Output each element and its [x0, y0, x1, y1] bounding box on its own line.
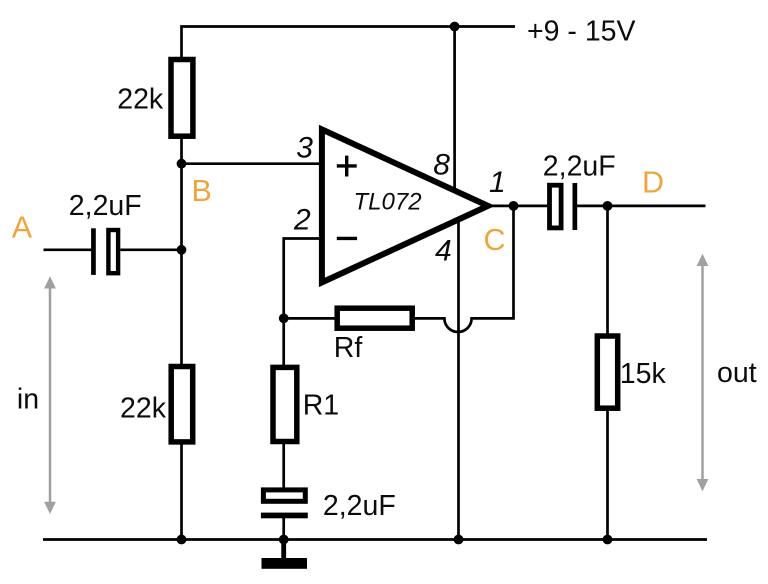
svg-text:15k: 15k [620, 358, 667, 390]
svg-text:TL072: TL072 [354, 189, 422, 216]
resistor R1 [273, 367, 297, 441]
svg-text:8: 8 [433, 149, 450, 182]
svg-text:A: A [12, 211, 33, 245]
capacitor 2,2uF input solid plate [91, 228, 96, 275]
junction dot ground at supply column [454, 535, 464, 545]
capacitor 2,2uF input hollow plate [108, 230, 118, 273]
op-amp plus input symbol [337, 156, 357, 177]
svg-text:D: D [642, 165, 664, 199]
resistor 22k upper [171, 60, 193, 137]
wire pin 8 supply from rail [453, 27, 456, 194]
svg-text:R1: R1 [303, 390, 339, 422]
junction dot ground at node B column [177, 535, 187, 545]
resistor 22k lower [171, 367, 193, 442]
out arrow (gray, double headed) [697, 254, 709, 491]
resistor Rf [337, 308, 412, 328]
svg-text:1: 1 [489, 166, 506, 199]
wire input from A [44, 248, 94, 251]
wire op-amp output [492, 205, 553, 208]
svg-text:Rf: Rf [334, 332, 363, 364]
wire pin 2 to feedback node [284, 239, 321, 496]
svg-text:22k: 22k [120, 393, 167, 425]
junction dot node D [603, 201, 613, 211]
wire output cap to D [573, 205, 706, 208]
svg-text:B: B [192, 174, 212, 208]
resistor 15k [597, 336, 617, 408]
capacitor 2,2uF output hollow plate [550, 185, 562, 228]
ground symbol [262, 540, 308, 569]
svg-text:+9 - 15V: +9 - 15V [527, 16, 636, 48]
wire supply column (pins 8 and 4) [455, 27, 459, 540]
wire feedback with hop over supply [284, 206, 514, 332]
node B junction dot [177, 159, 187, 169]
svg-text:2,2uF: 2,2uF [69, 190, 142, 222]
junction dot ground at R1 column [279, 535, 289, 545]
wire top supply rail and node B column [182, 27, 516, 540]
capacitor 2,2uF bypass solid plate [261, 513, 308, 519]
svg-text:4: 4 [435, 234, 452, 267]
capacitor 2,2uF output solid plate [573, 183, 578, 230]
wire node D column [606, 206, 609, 540]
svg-text:in: in [17, 384, 39, 416]
svg-text:22k: 22k [117, 84, 164, 116]
junction dot node C [509, 201, 519, 211]
junction dot input at node B [177, 245, 187, 255]
capacitor 2,2uF bypass hollow plate [263, 490, 305, 501]
junction dot supply rail [450, 22, 460, 32]
in arrow (gray, double headed) [44, 276, 56, 514]
svg-text:2,2uF: 2,2uF [543, 151, 616, 183]
svg-text:2: 2 [293, 204, 311, 237]
svg-text:3: 3 [296, 132, 313, 165]
junction dot ground at 15k column [603, 535, 613, 545]
wire pin 4 supply to ground rail [457, 219, 460, 540]
svg-text:out: out [717, 357, 757, 389]
svg-text:C: C [484, 223, 506, 257]
junction dot feedback node [279, 313, 289, 323]
svg-text:2,2uF: 2,2uF [323, 490, 396, 522]
op-amp triangle body [322, 129, 488, 282]
wire node B to pin 3 [182, 162, 321, 165]
wire bypass cap to ground rail [282, 514, 285, 540]
wire ground rail [43, 538, 707, 541]
wire input cap to node B [120, 248, 181, 251]
op-amp minus input symbol [337, 237, 357, 240]
